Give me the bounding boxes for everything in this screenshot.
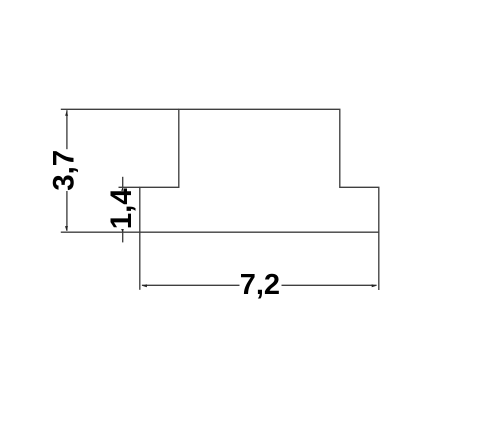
dimension line 3,7 upper segment <box>66 110 68 149</box>
svg-text:3,7: 3,7 <box>48 150 81 191</box>
arrowhead 1,4 up (below top extension) <box>121 188 124 191</box>
svg-text:7,2: 7,2 <box>240 269 280 301</box>
extension line left (1,4) <box>119 186 140 188</box>
extension line bottom-right (7,2) <box>378 232 380 290</box>
arrowhead 1,4 down (above bottom extension) <box>121 229 124 232</box>
extension line top (3,7) <box>61 108 179 110</box>
arrowhead 7,2 left <box>142 284 147 287</box>
extension line bottom-left (7,2) <box>139 232 141 290</box>
T-profile outline <box>140 109 379 232</box>
svg-text:1,4: 1,4 <box>105 188 138 230</box>
dimension line 3,7 lower segment <box>66 191 68 231</box>
arrowhead 3,7 up <box>65 111 68 116</box>
dimension line 7,2 left segment <box>142 284 240 286</box>
dimension line 1,4 lower segment <box>122 230 124 243</box>
arrowhead 3,7 down <box>65 226 68 231</box>
dimension line 7,2 right segment <box>282 284 377 286</box>
extension line bottom (3,7) <box>61 231 140 233</box>
arrowhead 7,2 right <box>372 284 377 287</box>
dimension line 1,4 upper segment <box>122 177 124 191</box>
